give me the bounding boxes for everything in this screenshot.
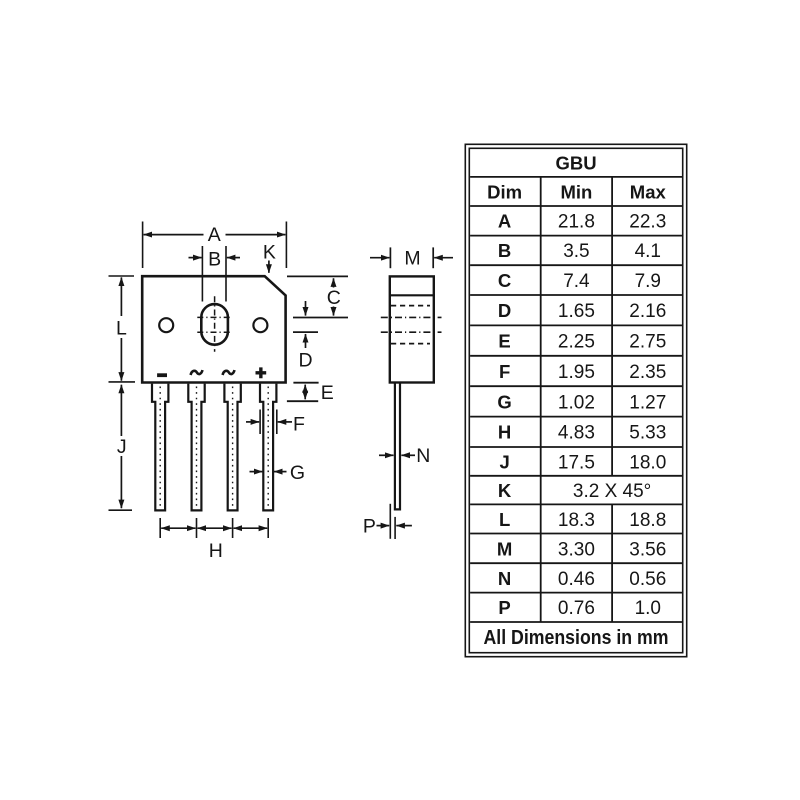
ac mark 1: [191, 370, 203, 375]
dim C arrow down: [333, 307, 335, 316]
lead 4 centerline: [267, 387, 269, 508]
dim M arrow left: [370, 257, 389, 259]
dim F tick right: [276, 410, 278, 435]
lead 2 outline: [188, 384, 204, 511]
svg-text:1.27: 1.27: [629, 392, 666, 413]
slot horizontal centerline upper: [197, 316, 231, 318]
svg-text:7.4: 7.4: [563, 271, 590, 292]
lead 2 centerline: [196, 387, 198, 508]
svg-text:G: G: [497, 391, 511, 412]
svg-text:0.56: 0.56: [629, 569, 666, 590]
svg-text:B: B: [498, 240, 511, 261]
dim C arrow up: [333, 278, 335, 287]
dim M arrow right: [434, 257, 453, 259]
svg-text:4.83: 4.83: [558, 423, 595, 444]
svg-text:H: H: [498, 422, 511, 443]
dim B extension line left: [201, 246, 203, 302]
svg-text:N: N: [498, 568, 511, 589]
table column line 2 upper: [611, 177, 613, 476]
ac mark 2: [223, 370, 235, 375]
dim A extension line right: [285, 222, 287, 269]
dim L arrow down: [120, 338, 122, 381]
table inner border: [469, 148, 682, 652]
dim E extension bottom: [287, 400, 318, 402]
dim H tick 3: [232, 518, 234, 538]
dim F arrow left: [246, 421, 259, 423]
svg-text:P: P: [363, 516, 376, 538]
dim P tick right: [394, 517, 396, 539]
side view body: [390, 276, 434, 382]
lead 4 outline: [260, 384, 276, 511]
svg-text:18.0: 18.0: [629, 452, 666, 473]
extension line top right: [287, 275, 348, 277]
svg-text:J: J: [499, 451, 509, 472]
svg-text:3.30: 3.30: [558, 539, 595, 560]
svg-text:H: H: [209, 540, 223, 562]
dim J arrow down: [120, 456, 122, 508]
dim B arrow right: [227, 257, 240, 259]
svg-text:Max: Max: [630, 182, 667, 203]
svg-text:J: J: [117, 436, 127, 458]
svg-text:2.75: 2.75: [629, 332, 666, 353]
slot vertical centerline: [214, 296, 216, 352]
dim H tick 4: [267, 518, 269, 538]
svg-text:P: P: [498, 597, 510, 618]
svg-text:L: L: [499, 509, 510, 530]
dim B extension line right: [225, 246, 227, 302]
dim N arrow right: [401, 454, 415, 456]
dim L extension top: [109, 275, 135, 277]
svg-text:D: D: [298, 350, 312, 372]
svg-text:K: K: [498, 480, 512, 501]
svg-text:Dim: Dim: [487, 182, 522, 203]
dim E extension top: [293, 382, 318, 384]
table column line 2 lower: [611, 504, 613, 622]
svg-text:Min: Min: [560, 182, 592, 203]
svg-text:1.0: 1.0: [635, 598, 661, 619]
svg-text:18.3: 18.3: [558, 510, 595, 531]
lead 3 outline: [224, 384, 240, 511]
svg-text:M: M: [497, 538, 512, 559]
center slot: [201, 304, 228, 345]
left mounting hole: [159, 318, 173, 332]
dim D arrow lower: [305, 334, 307, 348]
side view centerline lower: [381, 331, 442, 333]
dim N arrow left: [379, 454, 394, 456]
dim H tick 2: [196, 518, 198, 538]
svg-text:1.95: 1.95: [558, 362, 595, 383]
side view centerline upper: [381, 316, 442, 318]
lead 3 centerline: [232, 387, 234, 508]
table row lines: [470, 177, 682, 622]
side view hidden line lower: [391, 343, 430, 345]
extension line mid right: [293, 317, 348, 319]
svg-text:M: M: [404, 247, 420, 269]
svg-text:21.8: 21.8: [558, 212, 595, 233]
svg-text:B: B: [208, 248, 221, 270]
minus polarity mark: [157, 373, 167, 377]
lead 1 outline: [152, 384, 168, 511]
table outer border: [465, 144, 686, 656]
dim G arrow left: [250, 471, 263, 473]
svg-text:2.35: 2.35: [629, 362, 666, 383]
svg-text:22.3: 22.3: [629, 212, 666, 233]
package body front view: [142, 276, 285, 382]
dim K arrow: [268, 261, 270, 273]
svg-text:C: C: [327, 287, 341, 309]
svg-text:F: F: [293, 413, 305, 435]
svg-text:1.65: 1.65: [558, 301, 595, 322]
svg-text:3.56: 3.56: [629, 539, 666, 560]
dim H tick 1: [159, 518, 161, 538]
svg-text:4.1: 4.1: [635, 241, 661, 262]
svg-text:5.33: 5.33: [629, 423, 666, 444]
dim G arrow right: [274, 471, 287, 473]
svg-text:GBU: GBU: [555, 152, 596, 173]
svg-text:C: C: [498, 270, 511, 291]
dim A arrow left: [144, 234, 204, 236]
svg-text:A: A: [208, 224, 221, 246]
svg-text:D: D: [498, 300, 511, 321]
dim B arrow left: [189, 257, 202, 259]
svg-text:K: K: [263, 241, 276, 263]
dim J extension bottom: [109, 509, 133, 511]
svg-text:G: G: [290, 462, 305, 484]
svg-text:E: E: [321, 382, 334, 404]
slot horizontal centerline lower: [197, 331, 231, 333]
svg-text:2.16: 2.16: [629, 301, 666, 322]
side view chamfer line: [390, 294, 434, 296]
plus polarity mark: [256, 367, 267, 378]
svg-text:All Dimensions in mm: All Dimensions in mm: [484, 626, 669, 649]
right mounting hole: [253, 318, 267, 332]
dim J arrow up: [120, 385, 122, 436]
lead 1 centerline: [159, 387, 161, 508]
dim F tick left: [259, 410, 261, 435]
dim E arrow up: [304, 385, 306, 392]
svg-text:3.5: 3.5: [563, 241, 589, 262]
svg-text:N: N: [416, 445, 430, 467]
dim E arrow down: [304, 392, 306, 399]
side view lead: [395, 383, 400, 510]
dim M tick right: [432, 247, 434, 268]
dim P arrow right: [396, 525, 412, 527]
dim A extension line left: [142, 222, 144, 269]
svg-text:F: F: [499, 361, 510, 382]
dim A arrow right: [226, 234, 286, 236]
dim F arrow right: [278, 421, 292, 423]
svg-text:L: L: [116, 318, 127, 340]
svg-text:18.8: 18.8: [629, 510, 666, 531]
svg-text:3.2 X 45°: 3.2 X 45°: [573, 481, 651, 502]
extension line short right: [293, 331, 318, 333]
dim D arrow upper: [305, 301, 307, 316]
dim H arrows 1-2: [161, 527, 195, 529]
side view hidden line upper: [391, 305, 430, 307]
dim L/J extension middle: [109, 381, 136, 383]
svg-text:7.9: 7.9: [635, 271, 661, 292]
dim M tick left: [389, 247, 391, 268]
dim H arrows 2-3: [198, 527, 232, 529]
svg-text:0.76: 0.76: [558, 598, 595, 619]
svg-text:0.46: 0.46: [558, 569, 595, 590]
dim P arrow left: [377, 525, 390, 527]
dim H arrows 3-4: [234, 527, 268, 529]
svg-text:A: A: [498, 211, 511, 232]
svg-text:17.5: 17.5: [558, 452, 595, 473]
dim P tick left: [389, 504, 391, 539]
table column line 1: [540, 177, 542, 622]
dim L arrow up: [120, 277, 122, 316]
svg-text:1.02: 1.02: [558, 392, 595, 413]
svg-text:2.25: 2.25: [558, 332, 595, 353]
svg-text:E: E: [498, 331, 510, 352]
